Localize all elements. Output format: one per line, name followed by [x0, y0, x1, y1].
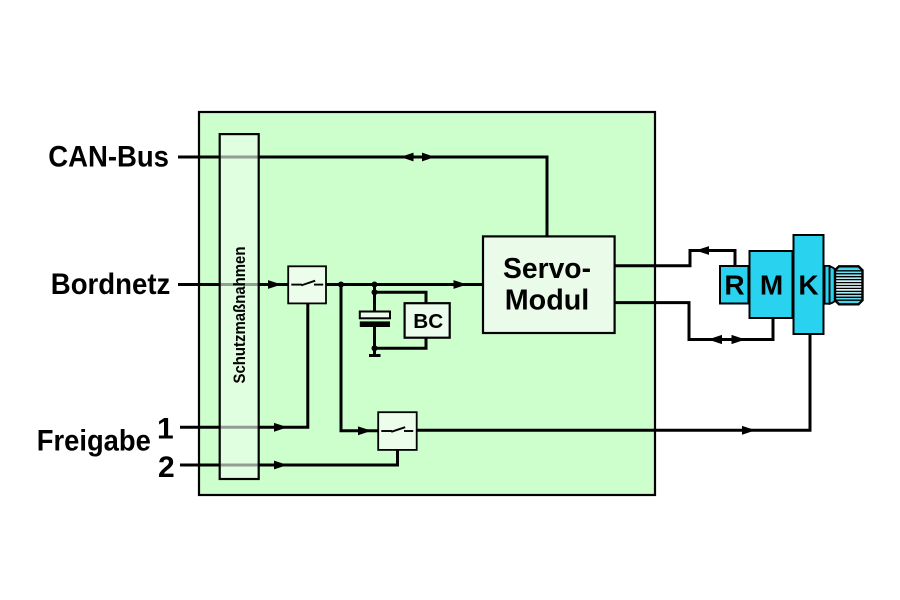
capacitor C (electrolytic) top plate [360, 312, 390, 319]
node B junction dot [372, 282, 378, 288]
wire Servo-Modul lower output to motor M [615, 303, 773, 340]
svg-text:R: R [724, 270, 744, 301]
node B2 junction dot [372, 289, 378, 295]
svg-text:Schutzmaßnahmen: Schutzmaßnahmen [231, 247, 249, 384]
svg-text:Modul: Modul [505, 285, 590, 317]
switch S1 [288, 266, 326, 303]
arrow CAN right [422, 153, 435, 162]
arrow into Servo-Modul [454, 280, 468, 289]
wire node A to switch S2 input [341, 285, 378, 431]
block R (sensor) [720, 266, 749, 304]
wire CAN-Bus to Servo-Modul [178, 157, 547, 236]
shaft collar between K and knurled knob [825, 266, 830, 304]
capacitor C bottom plate [360, 321, 390, 327]
arrow Freigabe 1 [274, 423, 288, 432]
svg-text:K: K [798, 270, 818, 301]
node C junction dot [372, 345, 378, 351]
svg-text:CAN-Bus: CAN-Bus [48, 140, 169, 173]
wire BC parallel branch [375, 292, 427, 348]
wire Freigabe 2 to switch S2 control [180, 450, 398, 465]
svg-text:2: 2 [158, 451, 175, 484]
block M (motor) [750, 251, 793, 318]
svg-text:1: 1 [157, 413, 174, 446]
switch S2 [378, 412, 417, 450]
arrow feedback to Servo-Modul [696, 246, 710, 255]
block Servo-Modul [483, 236, 615, 333]
svg-text:M: M [760, 270, 783, 301]
block K (clutch) [794, 235, 824, 334]
node A junction dot [338, 282, 344, 288]
wire S1 control from Freigabe 1 [180, 303, 308, 427]
knurled knob on shaft [835, 266, 863, 304]
svg-text:Servo-: Servo- [503, 253, 591, 285]
arrow into S2 [358, 426, 372, 435]
arrow CAN left [401, 153, 414, 162]
protection bar Schutzmassnahmen (semi-transparent overlay) [220, 134, 259, 479]
arrow motor line right [732, 335, 746, 344]
terminal bar below capacitor [369, 354, 381, 357]
arrow Freigabe 2 [274, 461, 288, 470]
svg-text:BC: BC [413, 310, 443, 333]
wire Servo-Modul upper output to sensor R [615, 251, 735, 267]
wire Bordnetz input [178, 283, 288, 286]
arrow motor line left [708, 335, 722, 344]
arrow on S2 output line [742, 426, 756, 435]
arrow Bordnetz [268, 280, 282, 289]
wire capacitor branch [373, 285, 376, 357]
svg-text:Freigabe: Freigabe [37, 425, 151, 458]
block BC [405, 303, 450, 338]
wire S2 output to clutch K [416, 334, 810, 430]
block: main module enclosure [199, 112, 655, 495]
svg-text:Bordnetz: Bordnetz [51, 268, 171, 301]
wire switch S1 output to Servo-Modul [326, 283, 483, 286]
